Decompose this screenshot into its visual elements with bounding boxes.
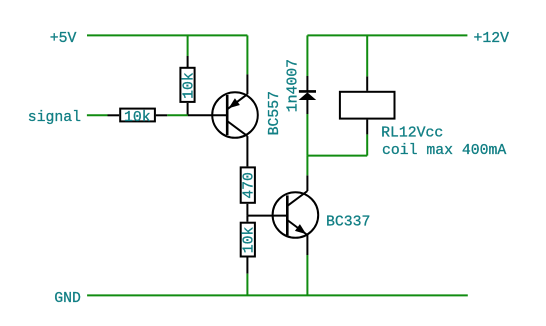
wire +5V rail bbox=[87, 34, 247, 36]
wire signal input bbox=[87, 114, 108, 116]
svg-text:10k: 10k bbox=[242, 227, 258, 254]
resistor R2 10k (horizontal, signal) bbox=[108, 109, 168, 126]
resistor R3 470 (vertical) bbox=[241, 167, 258, 215]
svg-text:coil max 400mA: coil max 400mA bbox=[382, 143, 506, 159]
diode D1 1n4007 bbox=[299, 76, 317, 114]
wire node to relay bottom bbox=[307, 155, 367, 157]
svg-text:BC557: BC557 bbox=[267, 91, 283, 135]
resistor R1 10k (vertical, top) bbox=[180, 56, 197, 115]
wire node to Q2 base bbox=[247, 215, 287, 217]
svg-text:10k: 10k bbox=[182, 72, 198, 99]
wire +12V rail bbox=[307, 34, 467, 36]
resistor R4 10k (vertical, bottom) bbox=[241, 216, 258, 274]
svg-text:10k: 10k bbox=[124, 110, 151, 126]
wire R2 to base node bbox=[167, 114, 188, 116]
wire relay bottom pin net bbox=[366, 134, 368, 155]
transistor Q1 BC557 (PNP) bbox=[212, 74, 258, 166]
wire R4 to GND bbox=[246, 274, 248, 296]
wire +5V drop to Q1 emitter bbox=[246, 35, 248, 74]
svg-text:BC337: BC337 bbox=[326, 214, 370, 230]
wire Q2 collector up bbox=[306, 156, 308, 176]
wire GND rail bbox=[87, 294, 468, 296]
svg-text:signal: signal bbox=[28, 110, 81, 126]
wire Q1 base pin bbox=[188, 114, 227, 116]
wire +12V drop to D1 bbox=[306, 35, 308, 76]
svg-text:+5V: +5V bbox=[50, 31, 77, 47]
svg-text:+12V: +12V bbox=[474, 31, 510, 47]
svg-text:1n4007: 1n4007 bbox=[286, 59, 302, 112]
wire relay top pin net bbox=[366, 35, 368, 76]
wire D1 anode down bbox=[306, 114, 308, 156]
svg-text:470: 470 bbox=[242, 172, 258, 199]
transistor Q2 BC337 (NPN) bbox=[273, 175, 319, 255]
relay K1 coil box bbox=[340, 76, 395, 134]
wire Q2 emitter to GND bbox=[306, 255, 308, 295]
svg-text:RL12Vcc: RL12Vcc bbox=[381, 126, 443, 142]
wire +5V drop to R1 bbox=[187, 35, 189, 56]
svg-text:GND: GND bbox=[54, 291, 81, 307]
